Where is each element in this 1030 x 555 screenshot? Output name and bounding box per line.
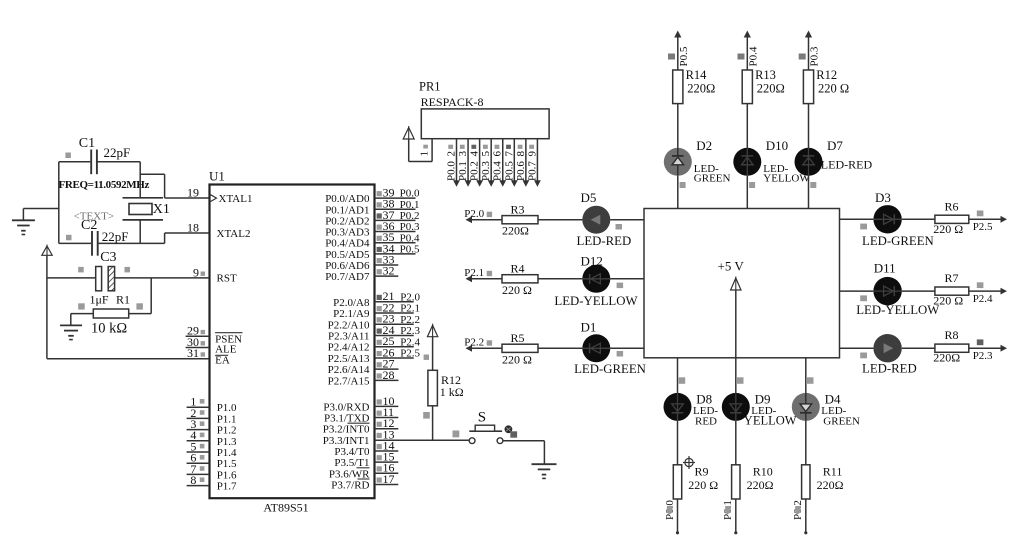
svg-text:P1.3: P1.3 [217, 436, 237, 448]
svg-text:P1.2: P1.2 [217, 425, 237, 437]
label <TEXT> [74, 211, 115, 223]
svg-text:P0.6: P0.6 [515, 161, 527, 181]
PR1 pin 4 wire / net P0.2 [469, 139, 483, 187]
svg-text:28: 28 [383, 368, 395, 382]
svg-text:R3: R3 [511, 203, 525, 217]
wire box to D9 [736, 358, 744, 393]
wire D4 to R11 [805, 421, 807, 465]
pin name P1.0 [217, 402, 237, 414]
pin 16 (P3.6 stub) [375, 461, 399, 475]
pin name XTAL1 [219, 193, 253, 205]
pin 37 (P0.2 stub) [375, 208, 420, 222]
pin 26 (P2.5 stub) [375, 345, 421, 359]
svg-text:P2.1: P2.1 [464, 267, 484, 279]
svg-text:R7: R7 [945, 271, 959, 285]
svg-text:RESPACK-8: RESPACK-8 [421, 95, 484, 109]
pin 8 (P1.7 stub) [187, 473, 210, 487]
label D11 [874, 260, 896, 275]
wire box to LED (P2.5 row) [840, 219, 874, 229]
svg-text:220 Ω: 220 Ω [933, 222, 963, 236]
ground (top-left) [12, 209, 59, 235]
junction box [644, 209, 840, 358]
resistor R3 220ohm [502, 203, 538, 238]
pin name P0.1/AD1 [325, 204, 369, 216]
svg-text:GREEN: GREEN [823, 416, 860, 428]
pin 19 (left stub) [187, 185, 199, 199]
resistor R8 220ohm (right) [933, 328, 969, 365]
pin 6 (P1.5 stub) [187, 451, 210, 465]
svg-text:R10: R10 [753, 464, 773, 478]
LED D10 [733, 148, 761, 176]
pin 15 (P3.5 stub) [375, 450, 399, 464]
LED D9 [722, 393, 750, 421]
origin marker (R9) [683, 456, 695, 469]
svg-text:P0.7: P0.7 [526, 161, 538, 181]
label LED-GREEN (D1) [574, 351, 646, 376]
clock marker XTAL1 [211, 195, 217, 202]
svg-text:R4: R4 [511, 262, 525, 276]
svg-text:P0.3: P0.3 [480, 161, 492, 181]
svg-text:AT89S51: AT89S51 [263, 501, 308, 515]
pin name P3.1/TXD [324, 413, 370, 425]
label D7 [810, 138, 872, 188]
pin 10 (P3.0 stub) [375, 394, 399, 408]
pin 18 (left stub) [187, 220, 199, 234]
svg-text:19: 19 [187, 185, 199, 199]
wire box to LED (P2.3 row) [840, 348, 874, 358]
svg-text:220 Ω: 220 Ω [502, 283, 532, 297]
svg-text:P3.7/RD: P3.7/RD [331, 479, 369, 491]
resistor R7 220ohm (right) [933, 271, 969, 308]
svg-text:3: 3 [457, 151, 469, 157]
svg-text:220 Ω: 220 Ω [933, 294, 963, 308]
wire R9 to net P0.0 [664, 499, 679, 534]
svg-text:220 Ω: 220 Ω [818, 81, 849, 95]
LED D7 [795, 148, 823, 176]
microcontroller U1 AT89S51 body [209, 169, 375, 515]
LED D5 LED-RED [582, 206, 610, 234]
pin 9 (left stub) [193, 265, 205, 279]
svg-text:R5: R5 [511, 331, 525, 345]
pin name P3.4/T0 [334, 446, 370, 458]
LED red (LED-RED) [873, 334, 901, 362]
svg-text:P2.5: P2.5 [973, 221, 993, 233]
pin 34 (P0.5 stub) [375, 241, 420, 255]
svg-text:P2.3: P2.3 [400, 325, 420, 337]
svg-text:LED-RED: LED-RED [577, 234, 632, 248]
resistor R13 220ohm (top) [742, 68, 785, 104]
svg-text:C3: C3 [100, 250, 116, 265]
svg-text:XTAL1: XTAL1 [219, 193, 253, 205]
svg-text:8: 8 [515, 151, 527, 157]
pin 5 (P1.4 stub) [187, 439, 210, 453]
wire R4 to D12 [538, 278, 582, 280]
svg-text:220 Ω: 220 Ω [502, 352, 532, 366]
label D10 [749, 138, 810, 188]
wire D2 to box [677, 176, 679, 209]
resistor R10 220ohm (bottom) [732, 464, 774, 499]
pin name P0.2/AD2 [325, 215, 369, 227]
svg-text:220 Ω: 220 Ω [688, 478, 718, 492]
pin 38 (P0.1 stub) [375, 197, 420, 211]
svg-text:P2.6/A14: P2.6/A14 [328, 364, 370, 376]
svg-text:18: 18 [187, 220, 199, 234]
svg-text:P2.2/A10: P2.2/A10 [328, 319, 370, 331]
LED D1 LED-GREEN [582, 334, 610, 362]
pin name P2.7/A15 [328, 375, 370, 387]
svg-text:22pF: 22pF [104, 145, 131, 160]
label D3 [875, 190, 891, 205]
svg-text:P2.4: P2.4 [973, 293, 993, 305]
svg-text:P2.5/A13: P2.5/A13 [328, 353, 370, 365]
pin 23 (P2.2 stub) [375, 312, 421, 326]
label D2 [680, 138, 731, 188]
svg-text:P2.4/A12: P2.4/A12 [328, 342, 370, 354]
PR1 pin 5 wire / net P0.3 [480, 139, 494, 187]
pin 35 (P0.4 stub) [375, 230, 420, 244]
svg-text:R14: R14 [686, 68, 708, 82]
wire: VCC rail to RST / EA [46, 255, 48, 358]
svg-text:R9: R9 [695, 464, 709, 478]
pin 12 (P3.2 stub) [375, 416, 399, 430]
svg-text:220Ω: 220Ω [933, 351, 960, 365]
wire pin 13 to button [375, 431, 470, 441]
pin name P0.7/AD7 [325, 271, 370, 283]
svg-text:C1: C1 [79, 136, 95, 151]
resistor R14 220ohm (top) [673, 68, 716, 104]
wire R6 to terminal P2.5 [969, 211, 1007, 234]
svg-text:220Ω: 220Ω [502, 224, 529, 238]
label D8 [693, 392, 718, 428]
pin 29 (left stub) [186, 324, 210, 338]
label D9 [744, 392, 797, 428]
pin name P2.6/A14 [328, 364, 370, 376]
svg-text:P2.0: P2.0 [400, 291, 420, 303]
pin 7 (P1.6 stub) [187, 462, 210, 476]
svg-text:P2.0/A8: P2.0/A8 [333, 297, 370, 309]
net terminal P2.0 [464, 208, 492, 223]
svg-text:1: 1 [419, 151, 431, 157]
svg-text:P1.5: P1.5 [217, 458, 237, 470]
capacitor C3 (polarized) [78, 250, 130, 307]
wire D12 to box [610, 278, 644, 280]
svg-text:LED-GREEN: LED-GREEN [574, 362, 646, 376]
svg-text:P2.3: P2.3 [973, 350, 993, 362]
LED D11 (LED-YELLOW) [873, 277, 901, 305]
svg-text:P1.6: P1.6 [217, 469, 237, 481]
pin name P3.5/T1 [334, 457, 369, 469]
svg-text:P1.4: P1.4 [217, 447, 237, 459]
svg-text:D3: D3 [875, 190, 891, 205]
capacitor C1 [59, 136, 140, 174]
wire P2.1 to R4 [470, 278, 502, 280]
pin name P3.7/RD [331, 479, 369, 491]
pin name P1.1 [217, 413, 237, 425]
svg-text:EA: EA [215, 355, 230, 367]
pin name P0.4/AD4 [325, 238, 370, 250]
svg-text:8: 8 [190, 473, 196, 487]
svg-text:6: 6 [492, 151, 504, 157]
wire LED to R7 [902, 290, 935, 292]
svg-text:PR1: PR1 [419, 80, 441, 94]
svg-text:LED-RED: LED-RED [862, 361, 917, 375]
pin 39 (P0.0 stub) [375, 186, 420, 200]
svg-text:220Ω: 220Ω [757, 81, 785, 95]
pin name P1.5 [217, 458, 237, 470]
pin 24 (P2.3 stub) [375, 323, 421, 337]
svg-text:2: 2 [446, 151, 458, 157]
wire LED to R6 [902, 218, 935, 220]
wire: RST line pin 9 [47, 277, 210, 279]
pin name P3.3/INT1 [323, 435, 370, 447]
wire: C1 to crystal [140, 162, 164, 198]
resistor R12 1k [428, 370, 464, 406]
svg-text:+5 V: +5 V [718, 259, 745, 274]
power +5V terminal (PR1 pin 1) [403, 126, 414, 139]
svg-text:P2.2: P2.2 [400, 314, 420, 326]
pin name P1.2 [217, 425, 237, 437]
label LED-RED [862, 361, 917, 375]
svg-text:9: 9 [193, 265, 199, 279]
label +5 V [718, 259, 745, 274]
svg-text:P2.1/A9: P2.1/A9 [333, 308, 370, 320]
pin name P3.6/WR [329, 468, 370, 481]
svg-text:R12: R12 [816, 68, 837, 82]
wire R10 to net P0.1 [722, 499, 737, 534]
svg-text:D7: D7 [827, 138, 843, 153]
pin 11 (P3.1 stub) [375, 405, 399, 419]
svg-text:220Ω: 220Ω [687, 81, 715, 95]
pin 33 (P0.6 stub) [375, 252, 399, 266]
pin 13 (P3.3 stub) [377, 427, 395, 441]
svg-text:P2.4: P2.4 [400, 336, 420, 348]
resistor R5 220 ohm [502, 331, 538, 366]
svg-text:R6: R6 [945, 199, 959, 213]
wire D5 to box [610, 219, 644, 221]
LED D12 LED-YELLOW [582, 265, 610, 293]
svg-text:P2.2: P2.2 [464, 337, 484, 349]
pin name P1.7 [217, 481, 237, 493]
svg-text:P2.7/A15: P2.7/A15 [328, 375, 370, 387]
label LED-YELLOW (D12) [554, 283, 638, 308]
wire D10 to box [746, 176, 748, 209]
pin 17 (P3.7 stub) [375, 472, 399, 486]
wire box to LED (P2.4 row) [840, 291, 874, 301]
pin name PSEN [215, 333, 242, 346]
svg-text:P0.7/AD7: P0.7/AD7 [325, 271, 370, 283]
pin 1 (P1.0 stub) [187, 395, 210, 409]
wire P2.0 to R3 [470, 219, 502, 221]
svg-text:220Ω: 220Ω [747, 478, 774, 492]
LED D8 [664, 393, 692, 421]
pin 27 (P2.6 stub) [375, 357, 399, 371]
svg-text:P0.4: P0.4 [492, 161, 504, 181]
resistor R4 220 ohm [502, 262, 538, 297]
wire R11 to net P0.2 [792, 499, 807, 534]
svg-text:R1: R1 [116, 293, 130, 307]
net terminal P0.5 (top) [668, 31, 690, 71]
wire P2.2 to R5 [470, 347, 502, 349]
svg-text:P2.0: P2.0 [464, 208, 484, 220]
svg-text:U1: U1 [209, 169, 225, 184]
pin 14 (P3.4 stub) [375, 438, 399, 452]
label D1 [581, 320, 597, 335]
svg-text:D11: D11 [874, 260, 896, 275]
LED D4 [792, 393, 820, 421]
wire: XTAL1 pin 19 [165, 197, 210, 199]
LED D3 (LED-GREEN) [873, 205, 901, 233]
svg-text:7: 7 [503, 151, 515, 157]
svg-text:220Ω: 220Ω [817, 478, 844, 492]
label D5 [581, 190, 597, 205]
svg-text:LED-YELLOW: LED-YELLOW [554, 294, 638, 308]
wire R13 to D10 [746, 104, 748, 148]
svg-text:P2.1: P2.1 [400, 303, 420, 315]
resistor R12 220ohm (top) [803, 68, 849, 104]
push button S [469, 410, 517, 444]
pin name EA [215, 355, 230, 367]
net terminal P2.2 [464, 337, 492, 352]
svg-text:P0.3: P0.3 [809, 46, 821, 66]
wire R7 to terminal P2.4 [969, 282, 1007, 305]
svg-text:P1.0: P1.0 [217, 402, 237, 414]
label D4 [821, 392, 860, 428]
wire +5V stem [735, 290, 737, 358]
wire D9 to R10 [735, 421, 737, 465]
label D12 [581, 253, 603, 268]
PR1 pin 8 wire / net P0.6 [515, 139, 529, 187]
wire VCC to R12 [424, 337, 433, 371]
svg-text:P0.5: P0.5 [400, 243, 420, 255]
pin 36 (P0.3 stub) [375, 219, 420, 233]
PR1 pin 2 wire / net P0.0 [446, 139, 460, 187]
svg-text:9: 9 [526, 151, 538, 157]
svg-text:X1: X1 [153, 202, 170, 217]
svg-text:10 kΩ: 10 kΩ [91, 321, 127, 337]
pin name P2.0/A8 [333, 297, 370, 309]
wire R14 to D2 [677, 104, 679, 148]
svg-text:22pF: 22pF [102, 229, 129, 244]
pin name P1.6 [217, 469, 237, 481]
svg-text:D12: D12 [581, 253, 603, 268]
pin name P1.4 [217, 447, 237, 459]
resistor pack PR1 RESPACK-8 [419, 80, 549, 139]
svg-text:D1: D1 [581, 320, 597, 335]
wire: crystal to C2/XTAL2 [140, 220, 164, 244]
label LED-GREEN [862, 234, 934, 248]
pin 4 (P1.3 stub) [187, 428, 210, 442]
svg-text:P0.1: P0.1 [457, 161, 469, 181]
wire: left rail C1/C2 [58, 162, 60, 244]
svg-text:R8: R8 [945, 328, 959, 342]
net terminal P0.3 (top) [799, 31, 821, 71]
capacitor C2 [59, 218, 140, 256]
pin name P0.5/AD5 [325, 249, 370, 261]
resistor R1 [71, 278, 151, 337]
wire R12 to pin13 net [423, 406, 432, 441]
wire R8 to terminal P2.3 [969, 339, 1007, 362]
svg-text:P0.0: P0.0 [446, 161, 458, 181]
svg-text:32: 32 [383, 264, 395, 278]
power +5V terminal (reset circuit) [42, 245, 52, 256]
ground (button) [532, 464, 557, 478]
pin name P2.4/A12 [328, 342, 370, 354]
wire box to D4 [806, 358, 814, 393]
svg-text:31: 31 [187, 346, 199, 360]
pin 25 (P2.4 stub) [375, 334, 421, 348]
svg-text:FREQ=11.0592MHz: FREQ=11.0592MHz [59, 179, 150, 191]
wire: XTAL2 pin 18 [165, 232, 210, 234]
svg-text:D5: D5 [581, 190, 597, 205]
wire button to ground [503, 441, 545, 465]
resistor R6 220ohm (right) [933, 199, 969, 236]
label LED-RED (D5) [577, 224, 632, 248]
PR1 pin 6 wire / net P0.4 [492, 139, 506, 187]
wire: EA pin 31 to VCC rail [47, 358, 210, 360]
svg-text:P1.1: P1.1 [217, 413, 237, 425]
pin 31 (left stub) [187, 346, 205, 360]
pin 30 (left stub) [186, 335, 210, 349]
wire D1 to box [610, 347, 644, 349]
pin 28 (P2.7 stub) [375, 368, 399, 382]
resistor R9 220ohm (bottom) [673, 464, 718, 499]
svg-text:RST: RST [217, 273, 237, 285]
pin name P2.3/A11 [328, 330, 369, 342]
pin name P2.1/A9 [333, 308, 370, 320]
wire R3 to D5 [538, 219, 582, 221]
svg-text:YELLOW: YELLOW [744, 414, 797, 428]
svg-text:17: 17 [383, 472, 395, 486]
svg-text:1μF: 1μF [90, 293, 109, 307]
svg-text:P0.5: P0.5 [503, 161, 515, 181]
PR1 pin 3 wire / net P0.1 [457, 139, 471, 187]
ground (R1) [60, 314, 82, 340]
pin name P1.3 [217, 436, 237, 448]
label FREQ=11.0592MHz [59, 179, 150, 191]
label LED-YELLOW [856, 303, 940, 317]
pin name P0.3/AD3 [325, 227, 370, 239]
svg-text:P0.5: P0.5 [678, 46, 690, 66]
svg-text:R11: R11 [823, 464, 843, 478]
pin name P2.5/A13 [328, 353, 370, 365]
pin name P2.2/A10 [328, 319, 370, 331]
svg-text:P0.2: P0.2 [469, 161, 481, 181]
pin name P0.0/AD0 [325, 193, 370, 205]
pin name P3.0/RXD [323, 401, 369, 413]
svg-text:XTAL2: XTAL2 [217, 228, 251, 240]
LED D2 [664, 148, 692, 176]
wire LED to R8 [902, 347, 935, 349]
svg-text:1 kΩ: 1 kΩ [440, 385, 464, 399]
svg-text:P2.5: P2.5 [400, 348, 420, 360]
svg-text:P2.3/A11: P2.3/A11 [328, 330, 369, 342]
svg-text:D2: D2 [696, 138, 712, 153]
svg-text:LED-RED: LED-RED [821, 158, 873, 172]
wire D8 to R9 [677, 421, 679, 465]
wire box to D8 [678, 358, 686, 393]
pin name RST [217, 273, 237, 285]
wire D7 to box [808, 176, 810, 209]
pin name ALE [215, 344, 237, 356]
pin 2 (P1.1 stub) [187, 406, 210, 420]
wire: PR1 pin 1 to VCC [409, 139, 432, 162]
svg-text:5: 5 [480, 151, 492, 157]
resistor R11 220ohm (bottom) [802, 464, 844, 499]
wire R12 to D7 [808, 104, 810, 148]
svg-text:S: S [478, 410, 486, 426]
svg-text:R13: R13 [755, 68, 776, 82]
svg-text:C2: C2 [81, 218, 97, 233]
